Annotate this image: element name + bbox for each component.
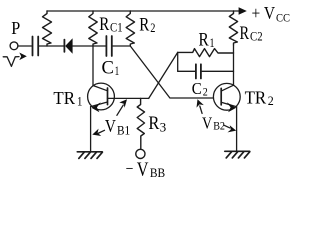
svg-text:R: R xyxy=(148,113,159,134)
svg-text:1: 1 xyxy=(210,36,215,50)
svg-text:B1: B1 xyxy=(117,124,130,138)
transistor TR1 xyxy=(88,83,115,112)
transistor TR2 xyxy=(213,83,240,112)
svg-text:2: 2 xyxy=(268,94,274,108)
svg-text:C2: C2 xyxy=(250,29,263,43)
wire top supply rail xyxy=(47,10,239,12)
svg-text:V: V xyxy=(105,116,116,136)
svg-text:V: V xyxy=(137,159,149,181)
svg-text:2: 2 xyxy=(203,84,208,98)
wire terminal to input cap xyxy=(18,45,31,47)
resistor RC2 xyxy=(229,11,237,45)
svg-text:C1: C1 xyxy=(110,20,123,34)
wire base TR1 xyxy=(108,97,149,99)
wire C1 to R2 node xyxy=(113,45,131,47)
diode D1 xyxy=(63,40,65,52)
resistor R1 xyxy=(178,49,234,57)
wire RC2 to collector TR2 xyxy=(233,45,235,85)
svg-text:TR: TR xyxy=(53,88,75,108)
svg-text:−: − xyxy=(126,159,134,178)
VB2 arrow to emitter xyxy=(224,125,229,128)
pulse waveform symbol at input xyxy=(3,57,19,67)
terminal -VBB xyxy=(136,149,145,158)
wire diagonal C1/R2 node to base TR2 xyxy=(130,46,213,98)
svg-text:2: 2 xyxy=(150,21,155,35)
wire diode to C1 / node collector TR1 xyxy=(73,45,106,47)
capacitor C1 xyxy=(106,36,111,56)
resistor R3 xyxy=(137,98,144,148)
wire RC1 to collector TR1 xyxy=(92,46,94,86)
resistor RC1 xyxy=(89,11,97,46)
svg-text:P: P xyxy=(11,18,20,38)
capacitor C2 xyxy=(178,70,195,72)
capacitor (input coupling) xyxy=(33,37,39,56)
wire emitter TR2 to ground xyxy=(236,107,238,151)
svg-text:C: C xyxy=(102,57,114,78)
svg-text:R: R xyxy=(199,29,209,50)
VB1 arrow to base xyxy=(117,105,123,115)
wire emitter TR1 to ground xyxy=(90,107,92,152)
svg-text:BB: BB xyxy=(150,166,165,180)
svg-text:R: R xyxy=(99,14,109,35)
svg-text:+ V: + V xyxy=(252,3,276,23)
svg-text:V: V xyxy=(202,113,213,132)
wire cap to diode xyxy=(39,45,63,47)
resistor R4 (trigger steering, unlabeled) xyxy=(43,11,52,46)
svg-text:R: R xyxy=(139,15,149,36)
ground (TR2 emitter) xyxy=(225,151,250,158)
svg-text:1: 1 xyxy=(115,64,120,78)
input terminal P xyxy=(10,42,18,50)
svg-text:R: R xyxy=(240,23,250,44)
resistor R2 xyxy=(126,11,134,46)
ground (TR1 emitter) xyxy=(77,152,102,159)
wire R1C2 left bracket xyxy=(177,52,179,71)
+Vcc arrow xyxy=(239,7,247,15)
svg-text:3: 3 xyxy=(160,120,167,134)
svg-text:1: 1 xyxy=(77,95,82,109)
svg-text:CC: CC xyxy=(276,10,290,24)
wire diagonal base TR1 to R1C2 bracket xyxy=(149,52,178,98)
VB1 arrow to emitter xyxy=(99,130,105,133)
svg-text:TR: TR xyxy=(245,87,267,107)
svg-text:C: C xyxy=(192,79,202,98)
svg-text:B2: B2 xyxy=(213,119,225,133)
VB2 arrow to base xyxy=(200,106,202,113)
